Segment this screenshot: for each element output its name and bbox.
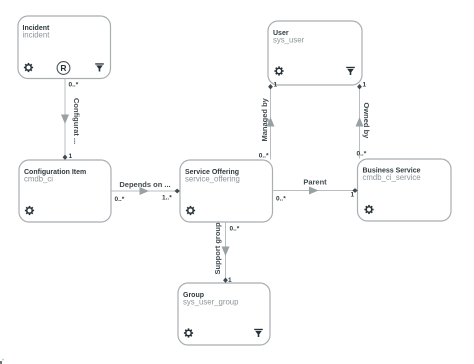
entity Business Service [358, 159, 452, 221]
svg-text:Support group: Support group [213, 222, 222, 274]
svg-text:1: 1 [228, 277, 232, 284]
svg-text:0..*: 0..* [259, 153, 269, 160]
svg-text:1: 1 [363, 82, 367, 89]
svg-text:0..*: 0..* [230, 226, 240, 233]
svg-text:1: 1 [274, 82, 278, 89]
svg-text:Managed by: Managed by [260, 97, 269, 141]
arrow up Managed by [267, 117, 275, 127]
arrow right Depends on [140, 187, 150, 195]
arrow up Owned by [356, 117, 364, 127]
svg-text:0..*: 0..* [276, 196, 286, 203]
wire Service Offering to User (Managed by) [259, 82, 278, 160]
wire Configuration Item to Service Offering (Depends on) [111, 180, 180, 203]
node diamond at User [357, 84, 362, 89]
svg-text:sys_user_group: sys_user_group [183, 298, 239, 307]
svg-text:sys_user: sys_user [273, 36, 305, 45]
svg-text:Depends on ...: Depends on ... [119, 180, 170, 189]
svg-text:0..*: 0..* [69, 82, 79, 89]
svg-text:R: R [60, 63, 66, 73]
svg-text:Configurat ...: Configurat ... [72, 98, 81, 144]
svg-text:1: 1 [69, 153, 73, 160]
arrow right Parent [309, 187, 319, 195]
wire Business Service to User (Owned by) [356, 82, 372, 159]
entity User [268, 21, 362, 85]
svg-text:cmdb_ci: cmdb_ci [24, 175, 53, 184]
node diamond at Service Offering [175, 189, 180, 194]
node diamond at Group [223, 278, 228, 283]
entity Configuration Item [19, 160, 111, 222]
svg-text:1..*: 1..* [162, 195, 172, 202]
node diamond at Configuration Item [63, 155, 68, 160]
entity Incident [18, 16, 111, 79]
arrow down Support group [222, 247, 230, 257]
wire Service Offering to Group (Support group) [213, 222, 240, 284]
svg-text:0..*: 0..* [115, 196, 125, 203]
entity Group [178, 283, 270, 345]
svg-text:Owned by: Owned by [362, 103, 371, 140]
node diamond at User [268, 84, 273, 89]
svg-text:1: 1 [351, 192, 355, 199]
svg-text:0..*: 0..* [357, 151, 367, 158]
svg-text:incident: incident [23, 31, 51, 40]
corner artifact bottom-left [0, 359, 4, 364]
svg-text:service_offering: service_offering [185, 175, 240, 184]
entity Service Offering [180, 160, 273, 222]
svg-text:cmdb_ci_service: cmdb_ci_service [363, 173, 421, 182]
wire Service Offering to Business Service (Parent) [273, 178, 358, 203]
arrow down Configurat [61, 115, 69, 125]
svg-text:Parent: Parent [303, 178, 327, 187]
node diamond at Business Service [352, 188, 357, 193]
wire Incident to Configuration Item [61, 79, 81, 161]
